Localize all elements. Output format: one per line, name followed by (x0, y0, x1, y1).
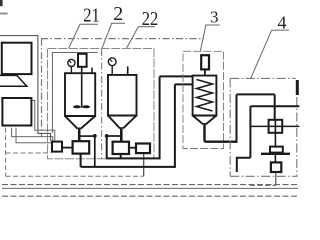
pump B1 outlet drop (80, 154, 82, 167)
wire up into pump B2 (143, 153, 145, 176)
mid rail through valve (250, 125, 299, 127)
tank 22 outlet pipe into pump A (120, 127, 123, 142)
transfer bus B (81, 166, 175, 168)
press platen bar (261, 153, 290, 155)
leader line 4 (251, 30, 289, 78)
mixing tank 21 cone (65, 116, 95, 129)
leader line 21 (69, 24, 98, 48)
leader line 3 (200, 25, 219, 51)
boundary box 3 (thin) (183, 51, 224, 148)
pump B1 (73, 141, 90, 153)
junction node j1 (93, 134, 97, 138)
agitator paddle (73, 105, 90, 108)
boundary box 2 (dash-dot, top + left edge) (41, 39, 204, 137)
press frame foot (237, 158, 251, 172)
keyboard of computer (0, 75, 27, 86)
bottom bus line 1 (dashed) (2, 184, 298, 186)
storage tank 22 body (108, 75, 137, 116)
feed pipe 1 into mixer 3 (160, 75, 193, 77)
transfer bus A (lower pipe) (106, 157, 160, 159)
down pipe into press valve (274, 94, 276, 120)
mold block (271, 162, 281, 172)
outlet elbow to riser (205, 140, 237, 142)
leader line 2 (102, 23, 125, 48)
press frame top rail (250, 105, 299, 107)
four-way valve (square with cross) (269, 120, 283, 133)
valve cross vertical (274, 120, 276, 133)
computer/monitor unit (2, 43, 32, 74)
mixing tank 21 body (65, 73, 95, 116)
inner hairline box around tank 1 (52, 53, 97, 133)
label 1 (partial digit at top-left) (0, 0, 3, 6)
controller box (2, 98, 31, 126)
feed box at right edge (296, 80, 299, 95)
pump B2 (136, 144, 150, 154)
press ram rod (274, 133, 276, 147)
mixer 3 outlet pipe (203, 123, 205, 142)
storage tank 22 cone (108, 116, 137, 129)
bottom link dashed from press (250, 184, 276, 186)
pressure gauge on tank 22 (108, 58, 116, 75)
drop pipe from j2 to bus A (106, 136, 108, 158)
boundary box 4 (dash-dot) (230, 78, 297, 176)
drop pipe from j1 (94, 136, 96, 167)
control wire corner b (12, 128, 53, 142)
overhead pipe to press (237, 93, 275, 95)
svg-text:3: 3 (210, 7, 219, 26)
mixer 3 cone (193, 116, 217, 125)
ram head block (270, 147, 283, 153)
press frame left column (249, 106, 251, 158)
dashed control line to valve V1 (6, 152, 52, 154)
control wire corner c (16, 128, 52, 143)
inner boundary box around both tanks (48, 48, 154, 158)
pressure gauge on tank 21 (68, 59, 75, 73)
leader line for label 1 (0, 13, 8, 15)
nozzle stub on tank 21 (91, 68, 93, 74)
divider line between zones 21 and 22 (dash-dot vertical) (101, 49, 103, 159)
svg-text:21: 21 (83, 5, 100, 27)
bottom bus line 2 (solid thin) (2, 187, 298, 189)
pump A outlet drop (120, 154, 122, 158)
feeder box on mixer 3 (201, 55, 209, 69)
lower rod (274, 155, 276, 162)
feeder stub (204, 69, 206, 75)
nozzle stub on tank 22 (127, 66, 129, 75)
agitator motor on tank 21 (78, 54, 87, 67)
dashed control loop left vertical (5, 128, 7, 177)
pipe V1 to pump B1 (62, 147, 73, 149)
riser pipe to mixer 3 inlet 1 (159, 76, 161, 159)
valve V1 (52, 142, 62, 152)
screw mixer 3 vessel (193, 76, 217, 116)
tank 21 outlet pipe into pump (78, 128, 81, 142)
leader line 22 (127, 27, 156, 49)
junction node j2 (105, 134, 109, 138)
branch line tank22 outlet to junction j2 (107, 135, 122, 137)
agitator shaft (81, 67, 83, 108)
screw (zigzag) inside mixer 3 (197, 80, 213, 112)
wire from label-1 area to plant (thin) (0, 36, 51, 141)
riser to press unit (236, 94, 238, 142)
svg-text:4: 4 (278, 13, 287, 33)
svg-text:2: 2 (113, 3, 123, 25)
dashed control loop bottom to pump B2 (6, 175, 144, 177)
pipe pump A to pump B2 (129, 147, 136, 149)
feed pipe 2 into mixer 3 (175, 83, 193, 85)
rod to bottom line (275, 172, 277, 185)
riser pipe to mixer 3 inlet 2 (174, 84, 176, 167)
pump A (113, 142, 129, 154)
bottom bus line 3 (dashed) (2, 195, 298, 197)
branch line from tank21 outlet to junction (79, 135, 95, 137)
control wire corner a (32, 101, 55, 142)
